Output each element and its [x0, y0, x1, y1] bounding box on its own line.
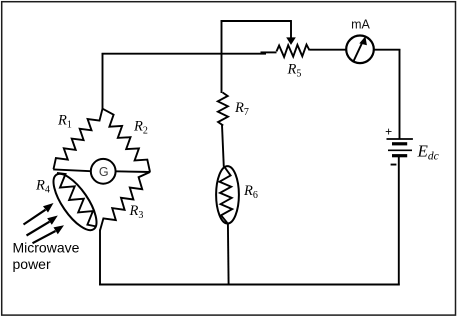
wire: main horizontal from bridge top toward R5 — [102, 52, 277, 53]
bolometer envelope ellipse around R4 — [46, 168, 104, 237]
label R2 — [133, 119, 148, 137]
label R6 — [243, 183, 258, 201]
wire: bridge bottom node down to bottom wire — [99, 230, 101, 286]
label mA — [351, 18, 370, 32]
label R4 — [35, 178, 50, 196]
wire: R6 bottom to bottom wire — [227, 223, 230, 285]
svg-text:mA: mA — [351, 18, 370, 32]
wire: top-left vertical from main wire down to bridge top node — [102, 53, 104, 110]
thermistor envelope ellipse around R6 — [216, 166, 239, 223]
resistor R1 (bridge upper-left arm) — [54, 109, 103, 170]
wire: R5 wiper drop with arrowhead — [286, 20, 296, 45]
battery - terminal mark — [391, 164, 397, 166]
wire: battery - down to bottom wire — [398, 155, 400, 285]
label E_dc — [417, 142, 439, 163]
resistor R2 (bridge upper-right arm) — [103, 109, 151, 172]
resistor R6: thermistor zigzag — [220, 167, 233, 223]
resistor R7 (vertical) — [218, 93, 228, 126]
svg-text:Microwave: Microwave — [13, 240, 80, 256]
microwave power arrow 1 — [24, 203, 54, 225]
label R1 — [57, 113, 72, 131]
galvanometer G circle — [91, 159, 116, 184]
wire: right vertical down to battery + — [399, 49, 401, 139]
resistor R3 (bridge lower-right arm) — [100, 172, 150, 231]
label R3 — [129, 203, 144, 221]
microwave power arrow 3 — [33, 225, 65, 243]
wire: bottom horizontal return — [99, 284, 400, 286]
wire: left node to galvanometer — [53, 169, 91, 171]
wire: R7 bottom to R6 top — [222, 125, 224, 167]
battery + terminal mark — [385, 125, 392, 139]
label R5 — [287, 62, 302, 80]
battery E_dc — [387, 139, 413, 156]
resistor R5 (horizontal, variable) — [277, 45, 310, 57]
wire: mA meter to right corner — [374, 49, 401, 51]
wire: galvanometer to right node — [116, 170, 151, 173]
resistor R4: bolometer element zigzag (bridge lower-left arm) — [57, 173, 97, 227]
node: bridge top — [102, 108, 104, 110]
milliammeter mA — [346, 36, 374, 64]
svg-text:G: G — [99, 165, 109, 179]
svg-text:power: power — [13, 256, 51, 272]
wire: vertical middle branch from top wire down to R7 — [221, 20, 223, 93]
label Microwave power — [13, 240, 80, 272]
microwave power arrow 2 — [27, 216, 58, 236]
svg-text:+: + — [385, 125, 392, 139]
wire: top feedback wire (R5 wiper loop) horizontal — [221, 20, 292, 22]
label R7 — [234, 100, 249, 118]
wire: R5 to mA meter — [310, 49, 347, 51]
